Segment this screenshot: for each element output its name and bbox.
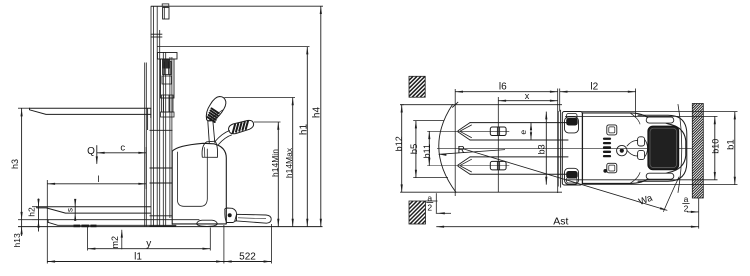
- svg-text:l2: l2: [590, 82, 598, 93]
- svg-text:b10: b10: [710, 139, 720, 154]
- svg-text:h3: h3: [10, 159, 20, 169]
- svg-text:b3: b3: [537, 144, 547, 154]
- svg-text:2: 2: [427, 202, 432, 212]
- svg-text:Ast: Ast: [553, 215, 568, 227]
- svg-text:h14Min: h14Min: [270, 149, 280, 177]
- svg-text:c: c: [120, 142, 125, 153]
- svg-text:Q: Q: [87, 146, 95, 157]
- svg-text:s: s: [65, 208, 74, 212]
- svg-text:h4: h4: [312, 107, 323, 119]
- svg-text:l1: l1: [134, 251, 142, 262]
- svg-text:x: x: [525, 91, 530, 101]
- svg-text:b12: b12: [394, 136, 404, 151]
- svg-text:h13: h13: [12, 233, 22, 247]
- svg-text:y: y: [146, 239, 151, 250]
- svg-text:e: e: [518, 130, 528, 135]
- svg-text:b11: b11: [422, 144, 432, 158]
- svg-text:522: 522: [239, 251, 256, 262]
- svg-text:l6: l6: [499, 82, 507, 93]
- svg-text:h14Max: h14Max: [284, 147, 294, 178]
- svg-text:R: R: [458, 145, 465, 156]
- svg-text:h2: h2: [26, 207, 36, 217]
- svg-text:b5: b5: [409, 144, 420, 155]
- svg-text:l: l: [97, 174, 99, 184]
- svg-text:m2: m2: [110, 236, 120, 249]
- svg-text:b1: b1: [725, 139, 736, 150]
- svg-text:h1: h1: [299, 124, 310, 136]
